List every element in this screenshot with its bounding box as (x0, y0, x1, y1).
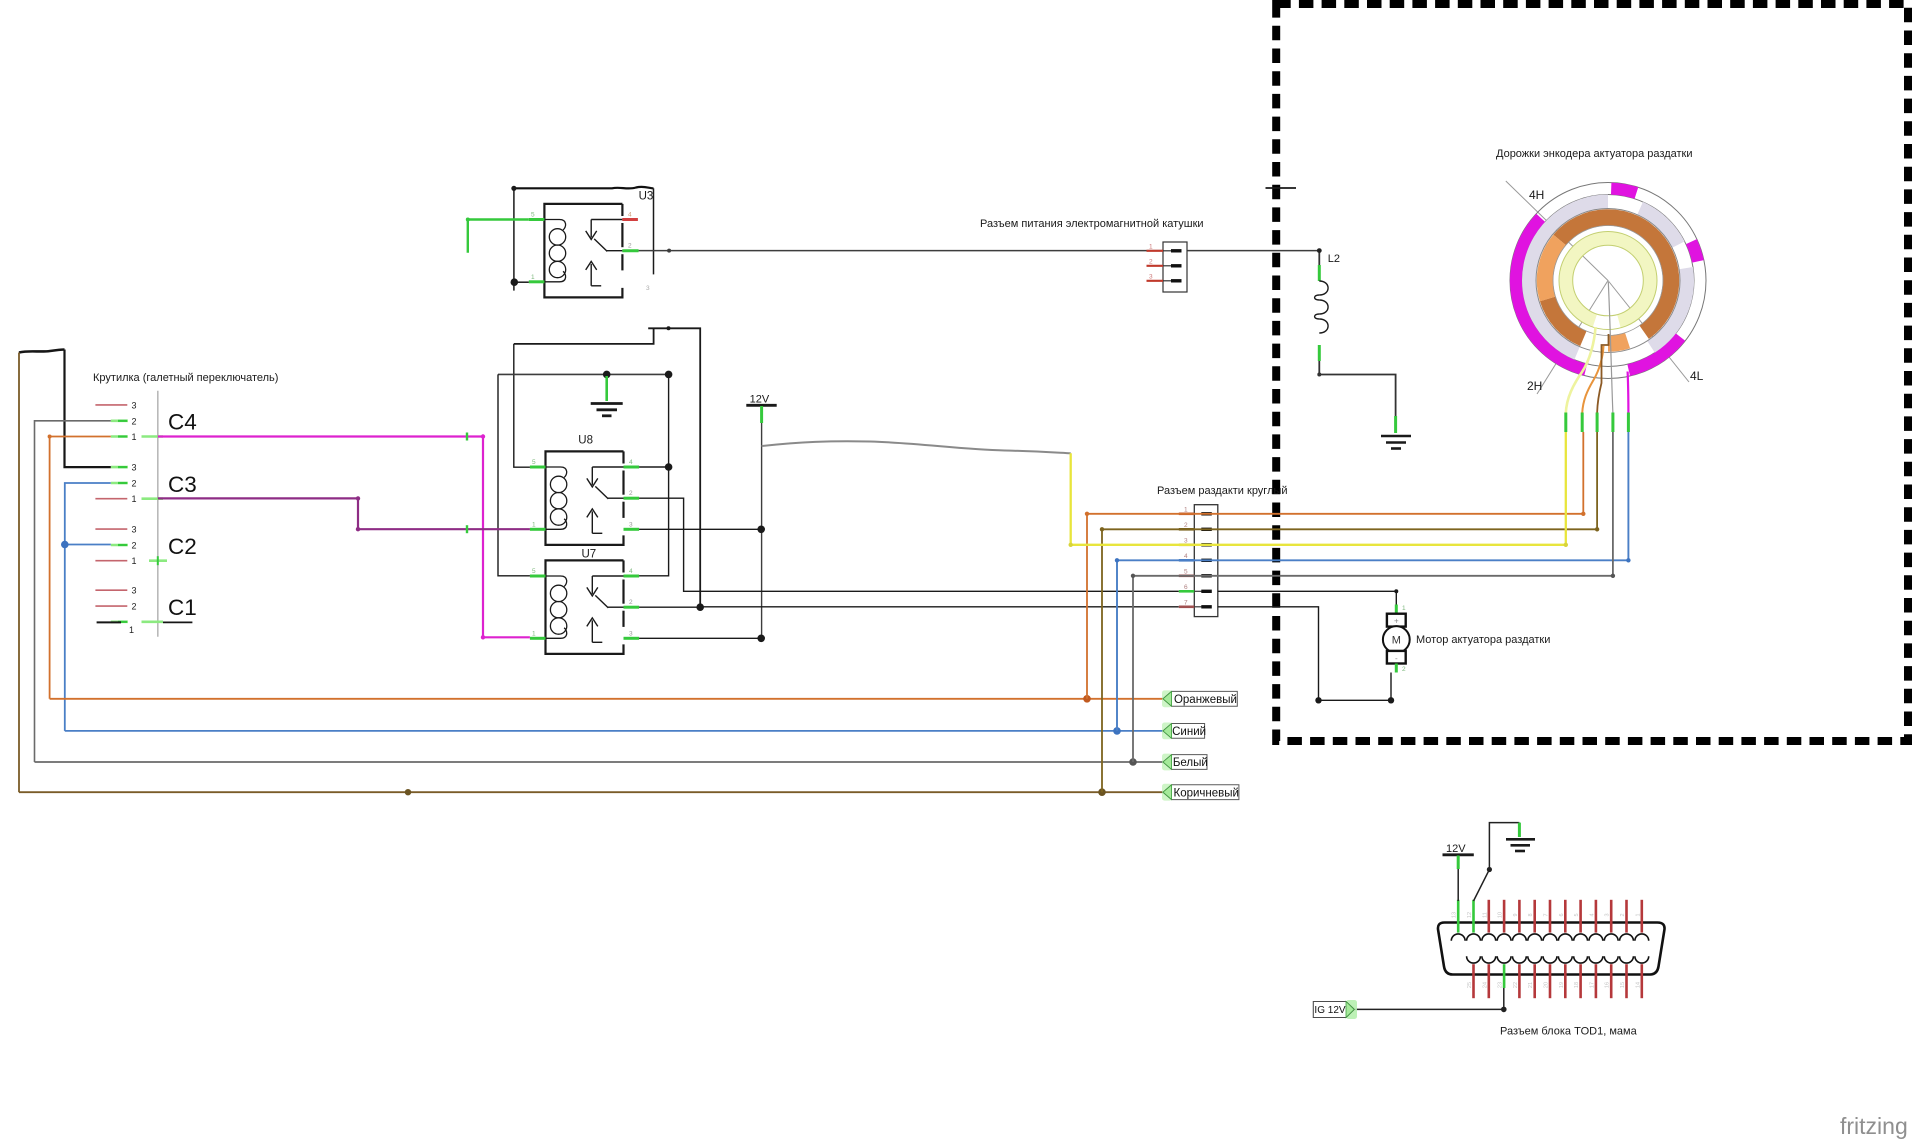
wire ground rail (498, 373, 669, 375)
wire U3 frame top rail (514, 187, 654, 189)
wire U7 pin5 riser (498, 374, 530, 575)
svg-text:1: 1 (1402, 605, 1406, 612)
svg-text:U3: U3 (639, 191, 654, 203)
wire encoder magenta tail (1626, 372, 1629, 414)
svg-text:Крутилка (галетный переключате: Крутилка (галетный переключатель) (93, 372, 278, 384)
relay U7 pin 2 (624, 599, 640, 607)
rotary switch C4 pin 2 (111, 416, 137, 426)
svg-text:1: 1 (531, 274, 535, 281)
relay U8 (546, 435, 624, 545)
svg-text:4: 4 (629, 568, 633, 575)
svg-text:5: 5 (1574, 913, 1580, 916)
relay U7 (546, 549, 624, 654)
svg-text:24: 24 (1482, 982, 1488, 988)
junction U7 pin3 / 12V (757, 635, 765, 643)
svg-text:2: 2 (1620, 913, 1626, 916)
svg-text:1: 1 (1635, 913, 1641, 916)
svg-text:2H: 2H (1527, 379, 1542, 393)
rotary switch C4 pin 3 (95, 400, 136, 410)
svg-text:IG 12V: IG 12V (1314, 1005, 1345, 1016)
junction blue C2 pin2 (61, 541, 69, 549)
rotary switch C1 pin 1 (111, 622, 163, 635)
connector TOD1 body (1438, 923, 1665, 975)
wire gray C4 pin2 (35, 421, 111, 762)
svg-text:+: + (1394, 617, 1399, 626)
svg-text:2: 2 (1149, 258, 1153, 265)
encoder lavender track (1529, 202, 1687, 354)
svg-text:1: 1 (129, 625, 134, 635)
wire U8 pin3 (639, 528, 761, 530)
relay U8 pin 4 (624, 459, 640, 467)
power symbol 12V (top) (746, 393, 776, 423)
wire magenta C4 to U7 pin1 (158, 434, 530, 639)
svg-text:12V: 12V (750, 393, 770, 405)
svg-text:4: 4 (629, 459, 633, 466)
wire blue pin4 to encoder (1115, 432, 1631, 731)
relay U3 pin 1 (529, 274, 545, 282)
svg-text:-: - (1395, 654, 1398, 663)
wire U8 pin2 to round connector pin6 (639, 498, 1179, 591)
wire brown vertical (18, 353, 20, 793)
bend mark magenta (466, 433, 468, 441)
wire pin6 to motor plus (1218, 589, 1399, 604)
svg-text:5: 5 (1184, 568, 1188, 575)
net flag Коричневый (1162, 784, 1239, 801)
svg-text:fritzing: fritzing (1840, 1113, 1908, 1139)
svg-text:19: 19 (1559, 982, 1565, 988)
rotary switch pole bar (157, 391, 159, 637)
svg-text:4L: 4L (1690, 369, 1704, 383)
svg-text:Мотор актуатора раздатки: Мотор актуатора раздатки (1416, 634, 1550, 646)
junction brown rail (405, 788, 1106, 796)
wire blue C2 pin2 (65, 544, 111, 546)
junction U8 pin3 / 12V (757, 526, 765, 534)
wire U8 pin5 riser (514, 344, 530, 467)
svg-text:1: 1 (532, 521, 536, 528)
svg-text:7: 7 (1544, 913, 1550, 916)
wire IG 12V to TOD1 pin24 (1355, 988, 1507, 1012)
wire stub crossing border (1266, 187, 1297, 189)
label C3 (168, 472, 197, 497)
wire yellow pin3 to encoder (1069, 432, 1569, 547)
encoder outer ring (1510, 183, 1706, 379)
net flag Белый (1162, 754, 1208, 771)
wire encoder brown tail (1597, 334, 1608, 413)
wire orange C4 pin1 (48, 435, 111, 699)
svg-text:4H: 4H (1529, 188, 1544, 202)
wire U8 pin4 (639, 466, 669, 468)
wire pin7 to motor minus (1218, 607, 1394, 704)
rotary switch C2 pin 1 (95, 556, 167, 566)
rotary switch C3 pin 1 (95, 494, 163, 504)
wire brown rail (19, 791, 1163, 793)
svg-text:21: 21 (1528, 982, 1534, 988)
svg-text:3: 3 (646, 285, 650, 292)
encoder magenta track (1516, 189, 1698, 371)
motor M1 (1383, 605, 1410, 674)
svg-text:1: 1 (132, 432, 137, 442)
junction rail right (665, 371, 673, 379)
svg-text:12: 12 (1467, 912, 1473, 918)
junction U3 pin1 (511, 278, 519, 286)
svg-text:4: 4 (1184, 553, 1188, 560)
svg-text:C1: C1 (168, 595, 197, 620)
wire encoder yellow tail (1566, 327, 1596, 413)
label C2 (168, 534, 197, 559)
relay U3 pin 3 label (646, 285, 650, 292)
junction U7 pin2 (696, 603, 704, 611)
svg-text:Разъем раздакти круглый: Разъем раздакти круглый (1157, 485, 1288, 497)
svg-text:10: 10 (1498, 912, 1504, 918)
svg-text:3: 3 (629, 521, 633, 528)
TOD1 bottom sockets (1467, 956, 1649, 963)
svg-text:M: M (1392, 635, 1401, 647)
encoder orange track (1545, 217, 1671, 343)
svg-text:22: 22 (1513, 982, 1519, 988)
svg-text:U8: U8 (578, 435, 593, 447)
connector J1 round 7-pin (1179, 505, 1218, 617)
svg-text:25: 25 (1467, 982, 1473, 988)
svg-text:1: 1 (132, 556, 137, 566)
wire U3 frame left vertical (513, 188, 515, 290)
encoder pointer lines (1506, 181, 1689, 394)
svg-text:6: 6 (1559, 913, 1565, 916)
svg-text:Разъем питания электромагнитно: Разъем питания электромагнитной катушки (980, 218, 1204, 230)
svg-text:1: 1 (532, 630, 536, 637)
rotary switch C3 pin 3 (111, 463, 137, 473)
svg-text:18: 18 (1574, 982, 1580, 988)
svg-text:1: 1 (132, 494, 137, 504)
svg-text:23: 23 (1498, 982, 1504, 988)
wire top-left bridge (19, 350, 65, 353)
wire U3 pin2 to coil connector (639, 249, 1320, 253)
label motor (1416, 634, 1550, 646)
svg-text:16: 16 (1605, 982, 1611, 988)
wire rail to U7 pin2 riser (514, 326, 700, 607)
svg-text:3: 3 (1605, 913, 1611, 916)
wire orange pin1 to encoder (1085, 432, 1586, 699)
svg-text:17: 17 (1589, 982, 1595, 988)
wire U7 pin2 (639, 606, 700, 608)
svg-text:5: 5 (531, 212, 535, 219)
wire black C3 pin3 riser (65, 350, 111, 468)
wire L2 to ground (1317, 361, 1395, 433)
svg-text:Белый: Белый (1173, 757, 1208, 769)
wire olive pin2 to encoder (1100, 432, 1600, 792)
svg-text:L2: L2 (1328, 253, 1340, 265)
ground symbol (TOD1) (1506, 839, 1535, 851)
svg-text:3: 3 (1149, 273, 1153, 280)
wire connector to L2 (1317, 248, 1322, 265)
label round connector (1157, 485, 1288, 497)
svg-text:7: 7 (1184, 599, 1188, 606)
wire encoder light orange tail (1582, 346, 1603, 413)
wire blue C3 pin2 riser (65, 483, 111, 731)
relay U3 pin 2 (622, 243, 638, 251)
svg-text:11: 11 (1482, 912, 1488, 918)
svg-text:Дорожки энкодера актуатора раз: Дорожки энкодера актуатора раздатки (1496, 148, 1693, 160)
bend mark purple (466, 525, 468, 533)
wire U3 frame right vertical (653, 188, 655, 274)
svg-text:U7: U7 (582, 549, 597, 561)
svg-text:12V: 12V (1446, 843, 1466, 855)
wire U7 pin2 to round connector pin7 (700, 606, 1179, 608)
net flag Оранжевый (1162, 690, 1237, 707)
rotary switch C2 pin 3 (95, 525, 136, 535)
relay U8 pin 2 (624, 490, 640, 498)
svg-text:Синий: Синий (1172, 726, 1206, 738)
encoder pin stubs (1566, 413, 1629, 433)
relay U7 pin 3 (624, 630, 640, 638)
wire black C1 pin1 (97, 621, 193, 623)
watermark fritzing (1840, 1113, 1908, 1139)
wire green to U3 pin5 (466, 218, 529, 253)
relay U8 pin 3 (624, 521, 640, 529)
svg-text:1: 1 (1149, 243, 1153, 250)
label encoder title (1496, 148, 1693, 160)
label rotary switch (93, 372, 278, 384)
svg-text:Оранжевый: Оранжевый (1174, 694, 1237, 706)
TOD1 bottom pins (1467, 964, 1642, 998)
svg-text:2: 2 (1402, 666, 1406, 673)
relay U3 pin 4 (622, 212, 638, 220)
svg-text:3: 3 (132, 525, 137, 535)
svg-text:Коричневый: Коричневый (1174, 787, 1239, 799)
encoder yellow track (1559, 232, 1657, 330)
wire purple C3 to U8 pin1 (158, 496, 530, 531)
TOD1 top pins (1452, 900, 1642, 933)
rotary switch C1 pin 2 (95, 602, 136, 612)
relay U7 pin 5 (530, 568, 546, 576)
svg-text:2: 2 (628, 243, 632, 250)
ground stub (U8) (605, 376, 608, 401)
rotary switch C3 pin 2 (111, 479, 137, 489)
power symbol 12V (bottom) (1443, 843, 1474, 869)
svg-text:5: 5 (532, 459, 536, 466)
net flag Синий (1162, 723, 1206, 740)
wire U7 pin3 (639, 637, 761, 639)
junction orange rail (1083, 695, 1091, 703)
svg-text:2: 2 (132, 479, 137, 489)
svg-text:2: 2 (629, 490, 633, 497)
svg-text:2: 2 (629, 599, 633, 606)
svg-text:C3: C3 (168, 472, 197, 497)
wire U3 pin1 to frame (514, 281, 529, 283)
svg-text:15: 15 (1620, 982, 1626, 988)
wire blue rail (65, 730, 1163, 732)
label C1 (168, 595, 197, 620)
wire U8/U7 pin4 riser (639, 374, 669, 575)
svg-text:13: 13 (1452, 912, 1458, 918)
TOD1 top sockets (1451, 934, 1648, 941)
inductor L2 (1315, 253, 1340, 361)
svg-text:3: 3 (629, 630, 633, 637)
junction blue rail (1113, 727, 1121, 735)
svg-text:8: 8 (1528, 913, 1534, 916)
relay U8 pin 1 (530, 521, 546, 529)
rotary switch C1 pin 3 (95, 586, 136, 596)
label TOD1 (1500, 1026, 1638, 1038)
label 4H (1529, 188, 1544, 202)
relay U7 pin 1 (530, 630, 546, 638)
svg-text:Разъем блока TOD1, мама: Разъем блока TOD1, мама (1500, 1026, 1638, 1038)
svg-text:2: 2 (132, 602, 137, 612)
dashed border box (1276, 4, 1908, 741)
net flag IG 12V (1313, 1000, 1357, 1019)
relay U3 (544, 191, 653, 298)
label C4 (168, 410, 197, 435)
wire white/gray rail (35, 761, 1164, 763)
svg-text:2: 2 (132, 541, 137, 551)
wire switch diagonal to ground (1474, 823, 1520, 901)
relay U7 pin 4 (624, 568, 640, 576)
label coil power connector (980, 218, 1204, 230)
relay U3 pin 5 (529, 212, 545, 220)
svg-text:3: 3 (1184, 537, 1188, 544)
svg-text:20: 20 (1544, 982, 1550, 988)
svg-text:14: 14 (1635, 982, 1641, 988)
label 4L (1690, 369, 1704, 383)
wire encoder gray tail (1608, 282, 1613, 413)
svg-text:3: 3 (132, 586, 137, 596)
svg-text:4: 4 (1589, 913, 1595, 916)
wire squiggle 12V to yellow (762, 441, 1071, 453)
svg-text:2: 2 (1184, 522, 1188, 529)
relay U8 pin 5 (530, 459, 546, 467)
svg-text:6: 6 (1184, 584, 1188, 591)
wire 12V down to U8/U7 pin3 (761, 423, 763, 637)
ground symbol (L2) (1381, 436, 1411, 449)
svg-text:3: 3 (132, 463, 137, 473)
junction gray rail (1129, 758, 1137, 766)
ground symbol (U8) (591, 404, 623, 416)
svg-text:2: 2 (132, 416, 137, 426)
junction U8 pin4 (665, 463, 673, 471)
svg-text:5: 5 (532, 568, 536, 575)
junction U3 top-left (511, 186, 516, 191)
wire orange rail (50, 698, 1163, 700)
rotary switch C2 pin 2 (111, 541, 137, 551)
svg-text:C4: C4 (168, 410, 197, 435)
rotary switch C4 pin 1 (111, 432, 163, 442)
label 2H (1527, 379, 1542, 393)
svg-text:4: 4 (628, 212, 632, 219)
ground stub (TOD1) (1518, 823, 1521, 837)
svg-text:1: 1 (1184, 506, 1188, 513)
connector J2 3-pin (1147, 242, 1188, 292)
wire gray pin5 to encoder (1131, 432, 1615, 762)
svg-text:9: 9 (1513, 913, 1519, 916)
junction ground rail (603, 371, 611, 379)
svg-text:3: 3 (132, 400, 137, 410)
svg-text:C2: C2 (168, 534, 197, 559)
wire 12V to TOD1 pin13 (1457, 869, 1459, 901)
